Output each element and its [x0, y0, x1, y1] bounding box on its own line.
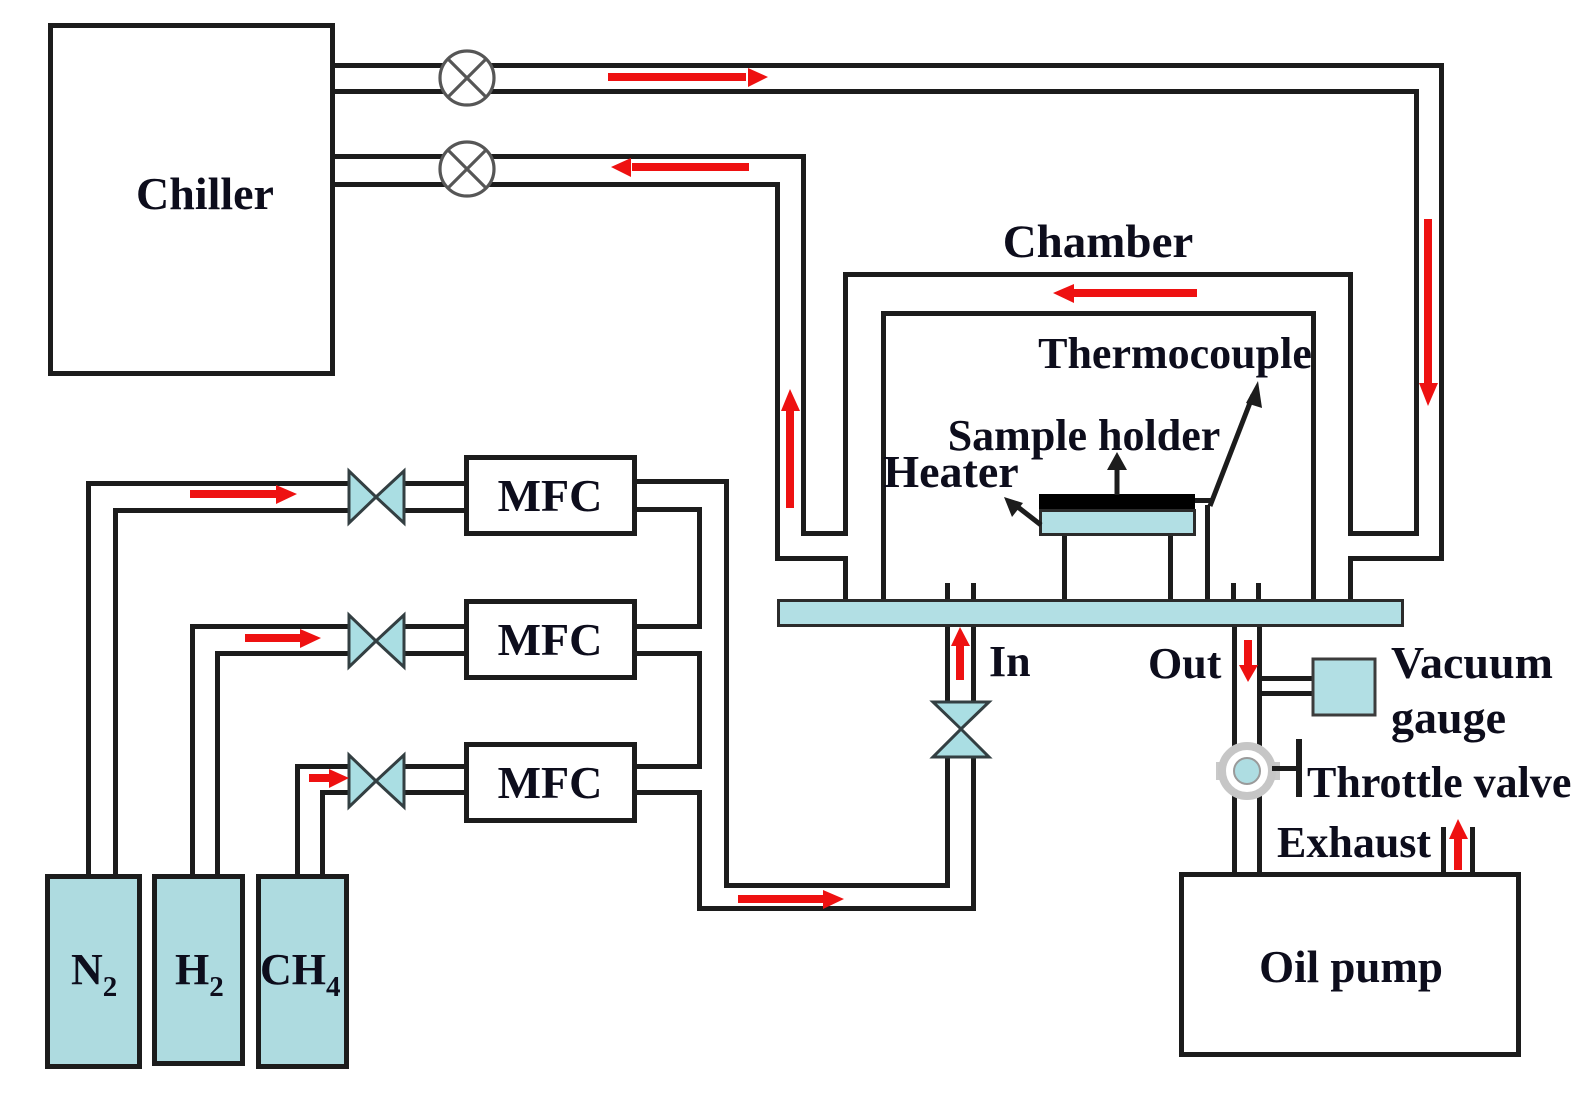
svg-text:Throttle valve: Throttle valve [1307, 758, 1571, 807]
svg-text:Heater: Heater [883, 446, 1018, 497]
svg-text:Oil pump: Oil pump [1259, 942, 1443, 992]
svg-text:Out: Out [1148, 639, 1222, 688]
svg-text:Chamber: Chamber [1003, 216, 1194, 268]
svg-text:gauge: gauge [1391, 692, 1506, 743]
svg-text:Thermocouple: Thermocouple [1038, 329, 1312, 378]
svg-text:Vacuum: Vacuum [1391, 637, 1553, 688]
svg-text:MFC: MFC [498, 757, 603, 808]
svg-text:MFC: MFC [498, 470, 603, 521]
svg-text:MFC: MFC [498, 614, 603, 665]
svg-text:Chiller: Chiller [136, 168, 274, 219]
svg-text:In: In [989, 637, 1031, 686]
svg-text:Exhaust: Exhaust [1277, 818, 1431, 867]
